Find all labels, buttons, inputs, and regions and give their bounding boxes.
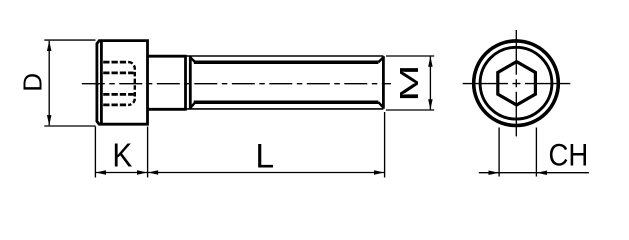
shank top edge <box>148 55 186 58</box>
svg-text:CH: CH <box>549 138 589 173</box>
dimension M extension line bottom <box>386 109 434 111</box>
thread start vertical 1 <box>184 55 187 111</box>
dimension CH extension line right <box>535 128 537 177</box>
hex socket hidden line bottom outer <box>103 104 128 107</box>
thread end chamfer top <box>378 57 383 62</box>
thread end vertical <box>382 56 385 108</box>
thread start chamfer bottom <box>190 102 195 108</box>
M arrow down <box>428 99 433 109</box>
svg-text:K: K <box>112 136 132 174</box>
thread crest line top (thin) <box>186 55 384 57</box>
dimension D line <box>48 41 50 126</box>
thread crest line bottom (thin) <box>186 108 384 110</box>
L arrow right <box>374 170 384 175</box>
dimension K extension line left <box>94 127 96 178</box>
K arrow right <box>137 170 147 175</box>
thread start vertical 2 <box>189 56 192 110</box>
centerline side view <box>82 83 391 85</box>
dimension K and L line <box>95 172 384 174</box>
end view chamfer circle <box>480 47 552 119</box>
dimension D arrow up <box>47 41 52 51</box>
shank bottom edge <box>148 108 186 111</box>
svg-text:D: D <box>17 73 47 92</box>
dimension M extension line top <box>386 55 434 57</box>
K arrow left <box>96 170 106 175</box>
svg-text:L: L <box>255 137 274 175</box>
dimension CH extension line left <box>498 128 500 177</box>
thread start chamfer top <box>190 57 195 62</box>
end view horizontal centerline <box>463 83 571 85</box>
hex socket hidden line bottom inner <box>103 93 133 96</box>
dimension CH line with outside arrows <box>479 172 589 174</box>
dimension D extension line bottom <box>44 125 95 127</box>
dimension D extension line top <box>44 39 95 41</box>
thread end chamfer bottom <box>378 102 383 108</box>
CH arrow pointing left <box>537 170 547 175</box>
dimension K/L shared extension line <box>147 127 149 178</box>
CH arrow pointing right <box>489 170 499 175</box>
hex socket hidden line top outer <box>103 61 128 64</box>
dimension M line <box>429 57 431 110</box>
end view outer circle <box>474 41 559 126</box>
thread root line top (thick) <box>194 61 379 65</box>
L arrow left <box>148 170 158 175</box>
end view vertical centerline <box>515 30 517 136</box>
socket bottom hidden arc <box>128 62 134 105</box>
dimension L right extension line <box>384 112 386 178</box>
dimension D arrow down <box>47 115 52 125</box>
thread root line bottom (thick) <box>194 100 379 104</box>
hex socket hidden line top inner <box>103 72 133 75</box>
svg-text:M: M <box>395 64 424 101</box>
screw head outline <box>97 41 148 125</box>
head chamfer tangent line <box>100 41 103 125</box>
M arrow up <box>428 56 433 66</box>
hex socket hexagon <box>498 62 536 105</box>
